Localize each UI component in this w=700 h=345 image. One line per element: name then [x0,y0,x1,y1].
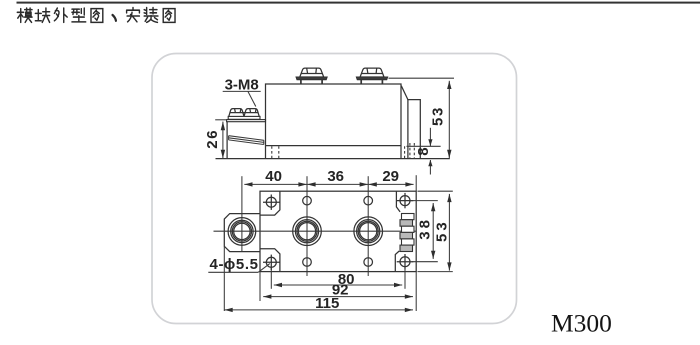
small holes [303,196,312,205]
main terminal 2 (concentric) [354,217,383,246]
模 [17,8,32,22]
svg-text:8: 8 [415,147,432,155]
dimension 38 [410,200,438,202]
stud bolt 2 head [360,68,384,77]
washer-level extension line [389,77,455,79]
块 [35,8,49,22]
frame (rounded border) [152,54,517,324]
extension for 92 left (plate edge) [259,272,261,301]
leader to BL hole [258,264,270,273]
svg-text:29: 29 [382,168,399,185]
left terminal bracket plate [227,120,266,122]
corner hole BL [263,255,280,270]
protrusion left edge extension (for 115) [223,246,225,311]
extension for 80 left [270,268,272,289]
dimension 8 [407,145,441,147]
right tab [408,100,420,159]
stud bolt 1 head [300,68,324,77]
型 [72,8,86,22]
body top-right chamfer [401,86,408,100]
top rule [17,2,700,4]
、 [112,15,115,21]
svg-text:40: 40 [265,168,282,185]
leader to bolts [248,91,256,106]
hidden holes right (dashed) [404,146,406,158]
extension line plate right edge top [415,175,417,191]
stud bolt 2 legs [361,80,382,84]
svg-text:53: 53 [429,106,446,126]
corner hole TR [397,193,414,208]
dimension 80 [274,284,402,286]
corner hole TL [263,195,280,210]
base plate [260,191,416,271]
stud bolt 2 washer [356,77,388,80]
dimension 53 (bottom) [418,190,453,192]
pad TL [260,191,280,215]
corner hole BR [397,254,414,269]
安 [127,8,140,22]
horizontal centerline [214,230,417,232]
svg-text:53: 53 [433,219,450,242]
svg-text:26: 26 [204,129,221,149]
stud bolt 1 legs [301,80,322,84]
svg-text:M300: M300 [551,309,612,338]
svg-text:4-ϕ5.5: 4-ϕ5.5 [210,256,259,273]
title 模块外型图、安装图 (drawn as stroke glyphs) [17,8,175,23]
svg-text:36: 36 [327,168,344,185]
dimension 92 [263,296,413,298]
pad BL [260,249,280,272]
dimension 115 [225,309,414,311]
terminal fin strip [400,214,414,252]
dimension 26 [215,119,227,121]
stud bolt 1 washer [296,77,327,80]
extension line terminal 2 center [367,176,369,276]
dim line 36 [307,183,368,185]
hidden holes left (dashed) [271,146,273,158]
extension line terminal 1 center [306,176,308,276]
图 [163,9,175,23]
svg-text:115: 115 [315,295,339,312]
装 [144,8,158,23]
dimension 53 (side) [448,81,450,159]
clamp wedge band [229,136,264,145]
left terminal base strip [228,116,260,119]
main terminal 1 (concentric) [293,217,322,246]
left protrusion [224,214,260,252]
图 [91,9,103,23]
baseline (mounting base bottom) [216,158,450,160]
extension line left terminal center [241,176,243,252]
dim line 29 [368,183,413,185]
svg-text:38: 38 [417,217,434,240]
module body outline [266,84,402,159]
外 [54,8,67,22]
flange top line [266,145,402,147]
pad BR [395,251,399,272]
left terminal hole (concentric) [228,218,256,246]
pad TR [396,191,400,212]
left terminal hex bolts [229,109,244,117]
dim line 40 [244,183,307,185]
extension for 80 right [404,267,406,289]
bracket left edge [226,122,228,159]
extension for 92/115 right (plate edge) [415,272,417,311]
